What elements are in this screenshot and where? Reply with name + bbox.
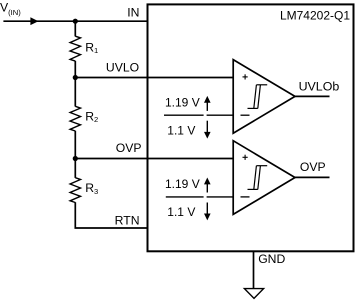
wire UVLO threshold line to comparator U2 minus input xyxy=(164,114,234,116)
resistor R2 value label xyxy=(85,109,98,124)
wire OVP threshold line to comparator U3 minus input xyxy=(166,196,234,198)
OVP threshold rising value label 1.19 V xyxy=(165,177,200,191)
wire VIN to IN pin xyxy=(3,20,147,22)
wire comparator U2 output UVLOb xyxy=(294,95,330,97)
ground symbol xyxy=(244,289,263,299)
node VIN label xyxy=(0,1,21,17)
comparator U3 hysteresis symbol xyxy=(248,166,268,190)
resistor R1 value label xyxy=(85,40,98,55)
wire R1 to UVLO node xyxy=(74,61,76,78)
comparator U3 (OVP) body xyxy=(233,141,295,215)
resistor R3 xyxy=(70,178,80,203)
comparator U2 hysteresis symbol xyxy=(248,85,268,109)
UVLO threshold falling arrow (down) xyxy=(204,121,211,139)
svg-text:OVP: OVP xyxy=(300,160,326,174)
OVP threshold falling arrow (down) xyxy=(204,203,211,221)
wire GND pin to ground xyxy=(253,251,255,288)
svg-text:UVLO: UVLO xyxy=(106,60,139,74)
wire UVLO node to R2 xyxy=(74,78,76,107)
svg-text:OVP: OVP xyxy=(116,141,142,155)
pin label UVLO xyxy=(106,60,139,74)
UVLO threshold falling value label 1.1 V xyxy=(167,124,195,138)
junction dot UVLO node xyxy=(73,75,78,80)
wire comparator U3 output OVP xyxy=(294,176,330,178)
comparator U2 minus input marker xyxy=(241,114,250,116)
svg-text:LM74202-Q1: LM74202-Q1 xyxy=(280,8,350,22)
svg-text:UVLOb: UVLOb xyxy=(299,79,340,93)
comparator U2 plus input marker xyxy=(243,74,248,79)
junction dot VIN node xyxy=(73,19,78,24)
wire UVLO node to comparator U2 + input xyxy=(75,77,233,79)
junction dot OVP node xyxy=(73,156,78,161)
resistor R1 xyxy=(70,36,80,61)
comparator U3 minus input marker xyxy=(241,196,250,198)
net label OVP (output) xyxy=(300,160,326,174)
wire R2 to OVP node xyxy=(74,131,76,159)
wire OVP node to comparator U3 + input xyxy=(75,158,233,160)
svg-text:1.1 V: 1.1 V xyxy=(167,124,195,138)
comparator U3 plus input marker xyxy=(243,155,248,160)
wire OVP node to R3 xyxy=(74,159,76,178)
OVP threshold falling value label 1.1 V xyxy=(167,205,195,219)
pin label IN xyxy=(127,6,139,20)
IC U1 name label LM74202-Q1 xyxy=(280,8,350,22)
wire VIN node to R1 xyxy=(74,21,76,36)
pin label OVP xyxy=(116,141,142,155)
UVLO threshold rising arrow (up) xyxy=(204,96,211,111)
svg-text:1.19 V: 1.19 V xyxy=(165,95,200,109)
comparator U2 (UVLO) body xyxy=(233,60,295,134)
resistor R3 value label xyxy=(85,181,98,196)
svg-text:GND: GND xyxy=(258,252,285,266)
svg-text:RTN: RTN xyxy=(115,214,140,228)
svg-text:1.19 V: 1.19 V xyxy=(165,177,200,191)
UVLO threshold rising value label 1.19 V xyxy=(165,95,200,109)
pin label GND xyxy=(258,252,285,266)
pin label RTN xyxy=(115,214,140,228)
OVP threshold rising arrow (up) xyxy=(204,178,211,193)
resistor R2 xyxy=(70,106,80,131)
net label UVLOb xyxy=(299,79,340,93)
svg-text:1.1 V: 1.1 V xyxy=(167,205,195,219)
wire R3 to RTN pin xyxy=(75,202,148,228)
arrow on VIN wire xyxy=(30,17,38,25)
IC U1 LM74202-Q1 outline xyxy=(148,4,354,251)
svg-text:IN: IN xyxy=(127,6,139,20)
